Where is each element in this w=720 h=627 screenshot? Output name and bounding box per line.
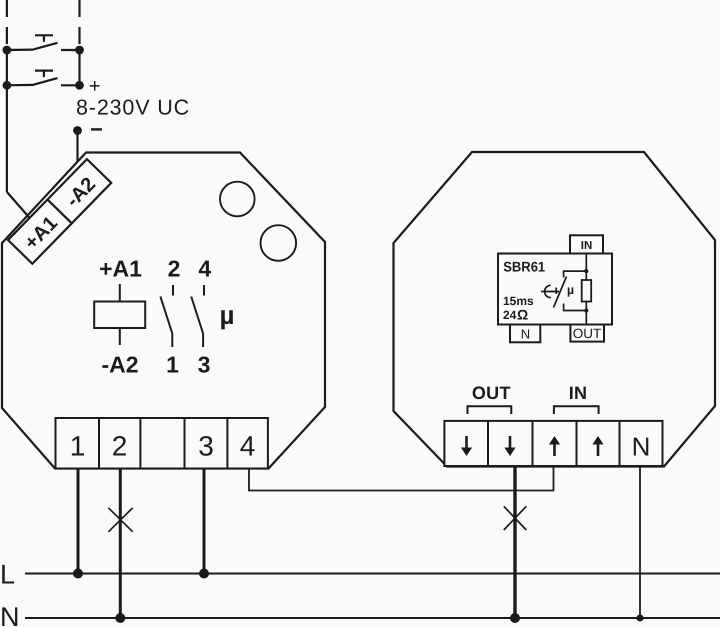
svg-text:4: 4 (240, 431, 256, 462)
svg-text:+A1: +A1 (99, 256, 142, 282)
svg-text:N: N (632, 432, 651, 462)
svg-text:OUT: OUT (573, 326, 602, 341)
svg-text:4: 4 (198, 256, 211, 282)
svg-text:N: N (0, 602, 20, 627)
svg-text:IN: IN (581, 240, 593, 252)
svg-text:+: + (89, 76, 101, 98)
svg-text:2: 2 (168, 256, 181, 282)
svg-text:L: L (0, 560, 15, 590)
svg-text:1: 1 (70, 431, 86, 462)
svg-text:SBR61: SBR61 (503, 259, 545, 275)
svg-text:N: N (521, 327, 530, 342)
svg-text:µ: µ (567, 283, 574, 297)
svg-text:3: 3 (198, 351, 211, 377)
svg-text:3: 3 (198, 431, 214, 462)
svg-text:8-230V UC: 8-230V UC (76, 96, 190, 120)
svg-text:Ω: Ω (517, 306, 528, 322)
svg-text:OUT: OUT (472, 383, 511, 403)
svg-text:2: 2 (112, 431, 128, 462)
svg-text:1: 1 (166, 351, 179, 377)
svg-text:IN: IN (569, 383, 588, 403)
svg-text:-A2: -A2 (101, 351, 138, 377)
svg-text:24: 24 (503, 308, 517, 322)
svg-text:µ: µ (220, 300, 235, 330)
